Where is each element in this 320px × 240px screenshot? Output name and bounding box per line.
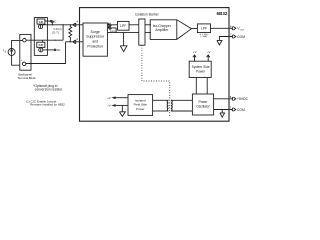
svg-text:OUT: OUT bbox=[240, 29, 245, 31]
svg-text:+V: +V bbox=[193, 50, 197, 54]
svg-text:Amplifier: Amplifier bbox=[155, 28, 169, 32]
svg-text:6B32: 6B32 bbox=[217, 11, 228, 16]
svg-text:Protection: Protection bbox=[87, 44, 103, 48]
svg-text:LPF: LPF bbox=[201, 26, 207, 30]
svg-text:Surge: Surge bbox=[91, 30, 100, 34]
svg-text:Isolation Barrier: Isolation Barrier bbox=[135, 12, 159, 16]
svg-text:NC: NC bbox=[57, 49, 61, 52]
svg-text:+5VDC: +5VDC bbox=[237, 97, 249, 101]
svg-text:Power: Power bbox=[198, 100, 208, 104]
svg-text:Remains installed for 6B32.: Remains installed for 6B32. bbox=[30, 103, 66, 107]
svg-text:CJC: CJC bbox=[39, 45, 44, 47]
svg-text:CJC: CJC bbox=[39, 22, 44, 24]
svg-text:conversion resistor.: conversion resistor. bbox=[35, 88, 64, 92]
svg-text:Suppressor: Suppressor bbox=[86, 35, 105, 39]
svg-text:Com: Com bbox=[110, 29, 116, 33]
svg-text:−V: −V bbox=[207, 50, 211, 54]
svg-text:System Side: System Side bbox=[192, 65, 210, 69]
svg-text:and: and bbox=[92, 40, 98, 44]
svg-text:(J1-T): (J1-T) bbox=[52, 31, 59, 35]
svg-text:COM: COM bbox=[237, 108, 245, 112]
svg-text:−V: −V bbox=[107, 104, 111, 108]
svg-text:Power: Power bbox=[196, 70, 206, 74]
svg-text:NC: NC bbox=[53, 20, 57, 23]
svg-text:Oscillator: Oscillator bbox=[196, 105, 210, 109]
svg-text:COM: COM bbox=[237, 35, 245, 39]
svg-text:LPF: LPF bbox=[120, 24, 126, 28]
svg-text:+V: +V bbox=[107, 96, 111, 100]
svg-text:Terminal Block: Terminal Block bbox=[18, 76, 37, 80]
svg-text:(−3dB): (−3dB) bbox=[200, 36, 207, 38]
svg-text:Power: Power bbox=[136, 107, 145, 111]
